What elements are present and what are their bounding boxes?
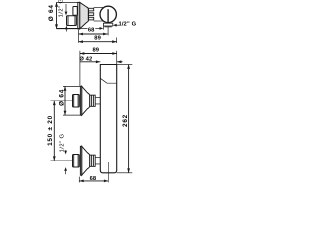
- dim line Ø64 top-view: [56, 2, 58, 28]
- dim Ø42: [80, 61, 100, 63]
- handle slot: [107, 9, 109, 22]
- svg-text:Ø 64: Ø 64: [59, 89, 66, 106]
- svg-text:262: 262: [122, 114, 129, 127]
- leader arrow left to outlet: [116, 24, 119, 26]
- body circle (plan): [100, 6, 116, 22]
- pipe above nut (top view): [73, 7, 77, 16]
- dim 89 line (to body right plane): [116, 38, 118, 44]
- connector ribs (top view): [88, 8, 93, 11]
- dim 89 front: [79, 51, 81, 87]
- svg-text:1/2” G: 1/2” G: [59, 0, 65, 17]
- dim 68 line (to outlet axis): [107, 27, 109, 35]
- svg-text:Ø 42: Ø 42: [79, 56, 92, 62]
- leader arrow down to nut top: [65, 150, 67, 151]
- svg-text:150 ± 20: 150 ± 20: [47, 115, 54, 146]
- svg-text:1/2” G: 1/2” G: [60, 134, 66, 153]
- leader arrow up to nut bottom: [64, 167, 67, 171]
- dim Ø64 front: [63, 85, 80, 87]
- lower union assembly (axis y=160.75): [51, 146, 101, 175]
- dim 68 bottom: [78, 177, 80, 183]
- svg-text:89: 89: [92, 47, 99, 53]
- leader arrow down to nut top: [65, 4, 67, 12]
- union nut (top view): [67, 16, 77, 26]
- svg-text:Ø 64: Ø 64: [48, 4, 55, 21]
- shoulder line inside body: [100, 78, 116, 83]
- body front: [100, 65, 116, 173]
- dim 150±20: [53, 101, 55, 161]
- extension line bell face down: [78, 30, 80, 43]
- svg-text:89: 89: [94, 35, 101, 41]
- dim 262: [117, 64, 133, 66]
- leader line to outlet left edge: [57, 27, 88, 29]
- outlet below circle: [103, 23, 112, 26]
- upper union assembly (axis y=100.75): [51, 86, 101, 115]
- knob bell rim (top view, tall left face): [78, 2, 80, 28]
- extension lines bell top/bottom: [57, 1, 78, 3]
- knob bell taper (top view, shaded): [80, 2, 89, 28]
- neck lines to circle: [94, 6, 103, 8]
- leader arrow up to nut bottom: [65, 26, 68, 30]
- svg-text:1/2” G: 1/2” G: [119, 22, 137, 28]
- svg-text:68: 68: [90, 176, 97, 182]
- svg-text:68: 68: [88, 27, 95, 33]
